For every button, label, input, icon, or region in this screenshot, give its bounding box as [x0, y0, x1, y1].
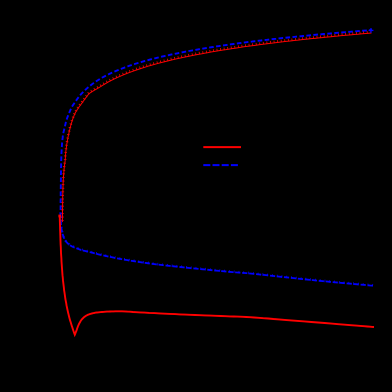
legend sample blue (dashed) — [203, 164, 238, 166]
curve lower-blue (dashed with ticks) — [61, 213, 375, 286]
curve lower-red (solid, cusp) — [60, 215, 374, 335]
lower-red first data point marker — [58, 215, 61, 218]
curve upper-red (line with error ticks) — [62, 32, 371, 222]
curve upper-blue (dashed) — [60, 30, 372, 231]
legend sample red (solid) — [203, 146, 241, 148]
upper-blue end plus-marker — [369, 28, 374, 33]
